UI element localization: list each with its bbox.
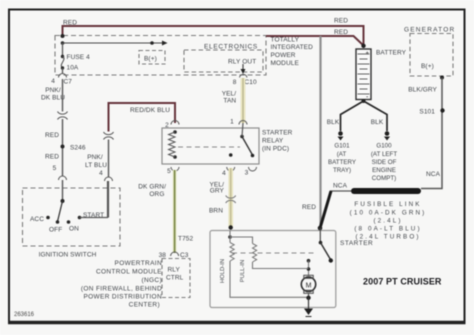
svg-text:INTEGRATED: INTEGRATED <box>271 44 314 51</box>
svg-text:BATTERY: BATTERY <box>328 159 356 166</box>
svg-text:PNK/: PNK/ <box>87 154 103 161</box>
svg-text:MODULE: MODULE <box>271 60 300 67</box>
svg-text:4: 4 <box>99 170 103 177</box>
svg-text:CONTROL MODULE: CONTROL MODULE <box>96 269 162 276</box>
svg-text:RED/DK BLU: RED/DK BLU <box>130 107 170 114</box>
svg-text:ENGINE: ENGINE <box>372 167 396 174</box>
svg-text:(10 0A-DK GRN): (10 0A-DK GRN) <box>350 210 427 217</box>
svg-text:8: 8 <box>233 79 237 86</box>
svg-text:BLK/GRY: BLK/GRY <box>408 87 437 94</box>
svg-text:C10: C10 <box>245 79 258 86</box>
svg-text:CENTER): CENTER) <box>129 302 160 309</box>
svg-text:C7: C7 <box>64 79 73 86</box>
svg-text:5: 5 <box>167 168 171 175</box>
svg-text:S246: S246 <box>70 145 86 152</box>
svg-text:POWER DISTRIBUTION: POWER DISTRIBUTION <box>83 294 162 301</box>
svg-text:RELAY: RELAY <box>262 138 284 145</box>
svg-text:5: 5 <box>53 165 57 172</box>
svg-text:3: 3 <box>245 170 249 177</box>
svg-text:TAN: TAN <box>223 98 236 105</box>
svg-text:RED: RED <box>63 20 77 27</box>
svg-text:G101: G101 <box>334 143 350 150</box>
svg-text:FUSE 4: FUSE 4 <box>67 54 91 61</box>
svg-text:S101: S101 <box>419 109 435 116</box>
svg-text:(AT LEFT: (AT LEFT <box>371 151 397 158</box>
svg-text:PNK/: PNK/ <box>45 87 61 94</box>
svg-text:RLY: RLY <box>168 267 181 274</box>
svg-text:NCA: NCA <box>426 171 441 178</box>
svg-text:COMPT): COMPT) <box>372 175 396 182</box>
svg-text:C3: C3 <box>180 252 189 259</box>
svg-text:G100: G100 <box>376 143 392 150</box>
svg-text:(IN PDC): (IN PDC) <box>262 146 289 153</box>
svg-text:4: 4 <box>51 78 55 85</box>
svg-text:IGNITION SWITCH: IGNITION SWITCH <box>39 252 97 259</box>
svg-text:YEL/: YEL/ <box>222 91 237 98</box>
svg-text:M: M <box>306 282 312 289</box>
svg-text:T752: T752 <box>178 236 194 243</box>
svg-text:DK GRN/: DK GRN/ <box>138 184 166 191</box>
svg-text:LT BLU: LT BLU <box>85 162 107 169</box>
svg-text:ACC: ACC <box>30 216 44 223</box>
svg-text:ORG: ORG <box>149 191 164 198</box>
svg-text:+: + <box>366 51 370 57</box>
svg-text:38: 38 <box>159 252 167 259</box>
svg-text:RED: RED <box>302 204 316 211</box>
svg-text:NCA: NCA <box>333 183 348 190</box>
svg-text:START: START <box>83 212 104 219</box>
svg-text:263616: 263616 <box>14 312 35 318</box>
svg-text:SIDE OF: SIDE OF <box>372 159 397 166</box>
svg-text:RED: RED <box>45 132 59 139</box>
svg-text:10A: 10A <box>67 65 79 72</box>
svg-text:POWER: POWER <box>271 52 296 59</box>
svg-text:(NGC): (NGC) <box>141 277 162 284</box>
svg-text:CTRL: CTRL <box>166 275 184 282</box>
svg-text:STARTER: STARTER <box>340 240 373 247</box>
svg-text:(ON FIREWALL, BEHIND: (ON FIREWALL, BEHIND <box>81 286 162 293</box>
svg-text:B(+): B(+) <box>421 63 434 70</box>
svg-text:TOTALLY: TOTALLY <box>271 37 300 44</box>
svg-text:(AT: (AT <box>337 151 347 158</box>
svg-text:POWERTRAIN: POWERTRAIN <box>115 260 162 267</box>
svg-text:BLK: BLK <box>371 119 384 126</box>
svg-text:GRY: GRY <box>210 188 225 195</box>
svg-text:RED: RED <box>334 29 348 36</box>
svg-text:2007 PT CRUISER: 2007 PT CRUISER <box>363 277 442 287</box>
svg-text:DK BLU: DK BLU <box>41 95 65 102</box>
svg-text:ELECTRONICS: ELECTRONICS <box>204 44 258 51</box>
svg-text:STARTER: STARTER <box>262 130 293 137</box>
svg-text:BLK: BLK <box>327 119 340 126</box>
svg-text:BRN: BRN <box>209 208 223 215</box>
svg-text:RED: RED <box>334 18 348 25</box>
svg-text:ON: ON <box>69 226 79 233</box>
svg-text:HOLD-IN: HOLD-IN <box>220 259 226 283</box>
svg-text:4: 4 <box>222 170 226 177</box>
svg-text:(8 0A-LT BLU): (8 0A-LT BLU) <box>354 226 421 233</box>
svg-text:OFF: OFF <box>49 227 62 234</box>
svg-text:B(+): B(+) <box>144 56 157 63</box>
svg-text:GENERATOR: GENERATOR <box>404 27 455 34</box>
svg-text:(2.4L): (2.4L) <box>373 218 402 225</box>
svg-text:BATTERY: BATTERY <box>376 50 407 57</box>
svg-text:1: 1 <box>230 119 234 126</box>
svg-text:RED: RED <box>45 154 59 161</box>
svg-text:TRAY): TRAY) <box>333 167 351 174</box>
svg-text:RLY OUT: RLY OUT <box>228 59 256 66</box>
svg-text:FUSIBLE LINK: FUSIBLE LINK <box>354 201 421 208</box>
svg-text:PULL-IN: PULL-IN <box>240 260 246 283</box>
